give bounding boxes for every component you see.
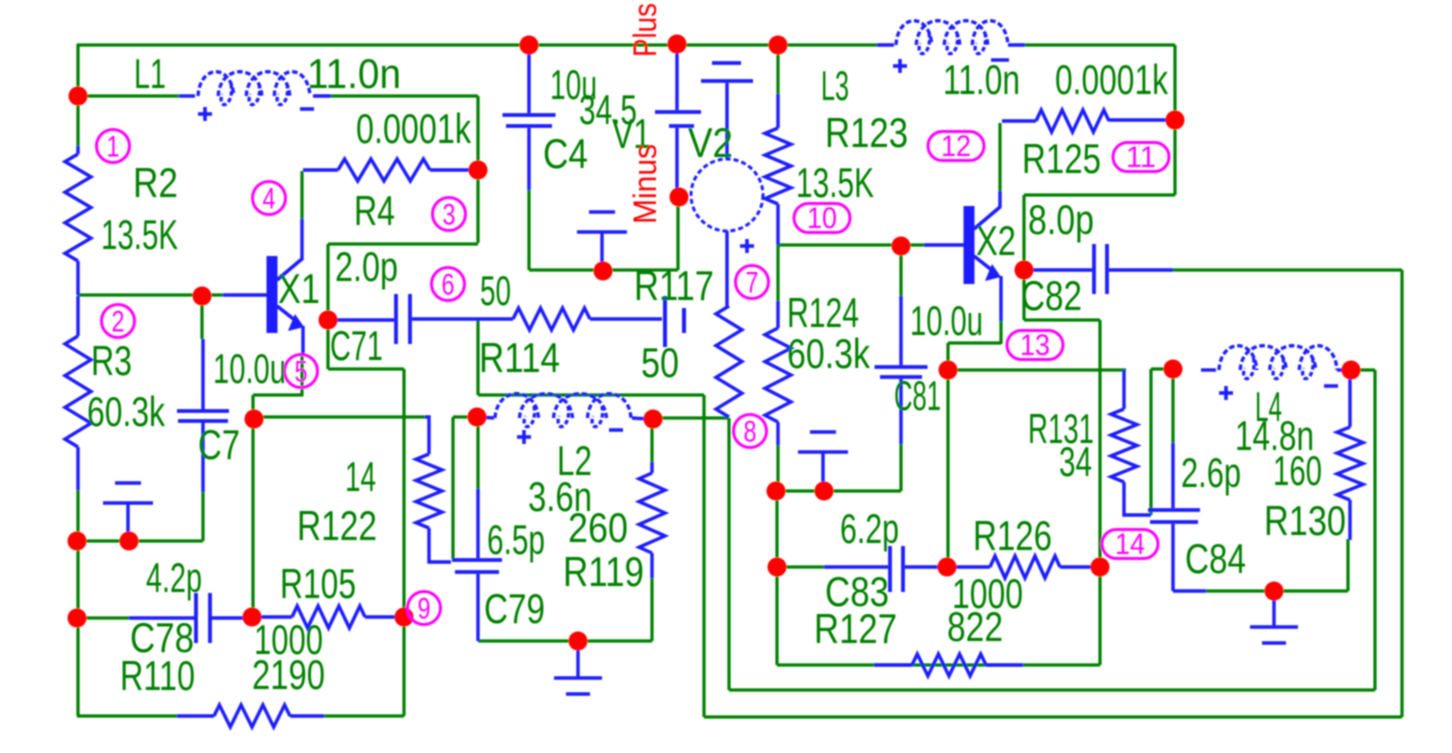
- svg-text:L3: L3: [821, 62, 849, 109]
- svg-text:50: 50: [480, 267, 511, 314]
- svg-text:R124: R124: [787, 289, 859, 336]
- svg-text:R114: R114: [479, 334, 560, 381]
- svg-text:7: 7: [746, 267, 759, 300]
- svg-text:1: 1: [107, 131, 120, 164]
- svg-text:3: 3: [443, 199, 456, 232]
- svg-text:4.2p: 4.2p: [146, 554, 202, 601]
- svg-text:10.0u: 10.0u: [910, 297, 983, 344]
- svg-text:C84: C84: [1185, 535, 1246, 582]
- svg-text:C4: C4: [543, 130, 588, 177]
- svg-text:4: 4: [263, 183, 276, 216]
- svg-text:X2: X2: [976, 217, 1016, 264]
- svg-text:13: 13: [1020, 329, 1050, 362]
- svg-text:R119: R119: [563, 548, 644, 595]
- svg-text:11.0n: 11.0n: [307, 50, 401, 97]
- svg-text:Plus: Plus: [627, 3, 663, 57]
- svg-text:0.0001k: 0.0001k: [356, 105, 472, 152]
- svg-text:Minus: Minus: [627, 144, 663, 224]
- svg-text:6.5p: 6.5p: [487, 516, 545, 563]
- svg-text:6.2p: 6.2p: [840, 505, 899, 552]
- svg-text:8.0p: 8.0p: [1028, 196, 1094, 243]
- svg-text:L1: L1: [134, 50, 166, 97]
- svg-text:R126: R126: [973, 512, 1052, 559]
- svg-text:R130: R130: [1264, 497, 1346, 544]
- svg-text:X1: X1: [278, 265, 320, 312]
- svg-text:11: 11: [1126, 141, 1156, 174]
- svg-text:C7: C7: [198, 421, 240, 468]
- svg-text:R3: R3: [91, 337, 132, 384]
- svg-text:260: 260: [568, 504, 628, 551]
- svg-text:R127: R127: [814, 605, 897, 652]
- svg-text:14: 14: [345, 453, 376, 500]
- svg-text:2.6p: 2.6p: [1181, 449, 1241, 496]
- svg-text:R117: R117: [634, 262, 714, 309]
- svg-text:10.0u: 10.0u: [213, 345, 286, 392]
- svg-text:0.0001k: 0.0001k: [1055, 56, 1169, 103]
- svg-text:14: 14: [1115, 528, 1145, 561]
- svg-text:R4: R4: [354, 187, 395, 234]
- svg-text:C79: C79: [484, 585, 545, 632]
- svg-text:10: 10: [807, 202, 837, 235]
- svg-text:5: 5: [295, 356, 308, 389]
- svg-text:6: 6: [442, 269, 455, 302]
- svg-text:V2: V2: [688, 119, 733, 166]
- svg-text:8: 8: [744, 416, 757, 449]
- svg-text:50: 50: [641, 339, 679, 386]
- svg-text:9: 9: [418, 593, 431, 626]
- svg-text:R110: R110: [120, 652, 195, 699]
- svg-text:34: 34: [1059, 438, 1092, 485]
- svg-text:C82: C82: [1021, 272, 1082, 319]
- svg-text:C71: C71: [330, 322, 383, 369]
- svg-text:822: 822: [947, 603, 1003, 650]
- svg-text:11.0n: 11.0n: [943, 56, 1020, 103]
- svg-text:R2: R2: [133, 159, 178, 206]
- svg-text:60.3k: 60.3k: [787, 330, 871, 377]
- svg-text:2: 2: [112, 306, 125, 339]
- svg-text:C81: C81: [894, 372, 941, 419]
- svg-text:160: 160: [1273, 447, 1322, 494]
- svg-text:R123: R123: [825, 109, 908, 156]
- svg-text:2190: 2190: [252, 651, 325, 698]
- svg-text:13.5K: 13.5K: [101, 211, 178, 258]
- svg-text:R125: R125: [1022, 135, 1101, 182]
- svg-text:R122: R122: [297, 502, 377, 549]
- svg-text:12: 12: [941, 130, 971, 163]
- svg-text:2.0p: 2.0p: [335, 243, 398, 290]
- svg-text:60.3k: 60.3k: [87, 388, 166, 435]
- svg-text:13.5K: 13.5K: [796, 159, 874, 206]
- svg-text:R105: R105: [280, 560, 356, 607]
